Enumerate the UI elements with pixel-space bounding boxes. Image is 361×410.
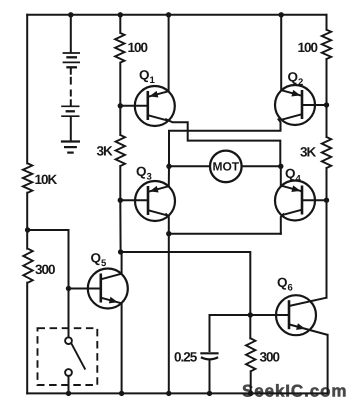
transistor Q4 (PNP, lower-right of bridge) <box>275 181 315 221</box>
wire: Q1 emitter to top bus <box>168 15 170 92</box>
node: Q1 emitter junction on top bus <box>166 12 171 17</box>
svg-text:3K: 3K <box>97 144 114 159</box>
wire: left 3K to Q3 base node <box>119 166 121 200</box>
wire: Q5 base node down to switch <box>68 289 70 338</box>
resistor 10K (left rail) <box>23 163 58 192</box>
wire: top supply bus <box>27 14 326 16</box>
wire: Q2 emitter to top bus <box>280 15 282 91</box>
node: left rail to switch/Q5 branch <box>25 227 30 232</box>
wire: Q3 collector down <box>166 214 169 234</box>
wire: Q2 base node to right 3K <box>326 105 328 137</box>
node: ground bus junction (300 ohm) <box>248 391 253 396</box>
wire: motor right terminal to Q4 emitter <box>280 166 282 186</box>
wire: Q5 collector node to Q6 base node <box>121 252 251 315</box>
node: bridge lower-left junction <box>166 231 171 236</box>
wire: to capacitor top <box>210 315 251 351</box>
wire: Q4 base lead <box>302 199 327 201</box>
wire: left 100 ohm to Q1 base node <box>119 63 121 106</box>
node: Q2 emitter junction on top bus <box>279 12 284 17</box>
svg-text:300: 300 <box>260 350 280 365</box>
wire: bridge lower-left junction to ground bus <box>168 234 170 394</box>
resistor 3K (right) <box>300 137 331 168</box>
node: battery top junction <box>68 12 73 17</box>
wire: right 3K to Q4 base node <box>326 168 328 200</box>
transistor Q5 (NPN, left driver) <box>88 269 128 309</box>
wire: left rail upper <box>26 15 28 164</box>
wire: motor right lead <box>242 165 281 167</box>
svg-text:SeekIC.com: SeekIC.com <box>242 382 347 401</box>
node: Q3 base junction <box>118 198 123 203</box>
wire: motor left lead <box>169 165 210 167</box>
wire: left rail middle <box>26 193 28 249</box>
svg-text:3K: 3K <box>300 145 317 160</box>
resistor 300 (left rail) <box>23 249 55 283</box>
node: ground bus junction (Q5 emitter) <box>119 391 124 396</box>
node: Q4 base junction <box>324 198 329 203</box>
battery B1 (multi-cell with dashed middle) <box>61 53 80 141</box>
svg-text:0.25: 0.25 <box>174 349 198 364</box>
wire: Q5 emitter to ground bus <box>121 303 123 393</box>
transistor Q1 (PNP, upper-left of bridge) <box>135 86 175 126</box>
svg-text:10K: 10K <box>35 172 58 187</box>
transistor Q3 (PNP, lower-left of bridge) <box>135 181 175 221</box>
wire: bridge bottom tie Q3-Q4 collectors <box>169 233 281 235</box>
ground (battery negative) <box>61 142 80 153</box>
wire: Q5 collector up to junction <box>121 252 123 274</box>
node: ground bus junction (switch) <box>66 391 71 396</box>
svg-text:100: 100 <box>128 40 148 55</box>
node: Q5 collector junction <box>118 249 123 254</box>
wire: right 300 ohm to ground bus <box>250 371 252 393</box>
svg-text:Q5: Q5 <box>91 251 108 270</box>
svg-text:Q3: Q3 <box>136 164 152 183</box>
node: Q5 base junction <box>66 286 71 291</box>
svg-text:Q1: Q1 <box>139 68 156 87</box>
node: motor right terminal <box>278 164 283 169</box>
capacitor 0.25 <box>174 349 219 393</box>
wire: Q3 base node down to Q5 collector node <box>119 200 121 252</box>
wire: motor left terminal to Q3 emitter <box>168 166 170 186</box>
node: Q2 base junction <box>324 102 329 107</box>
wire: Q1 base lead <box>120 105 148 107</box>
node: ground bus junction (bridge) <box>166 391 171 396</box>
resistor 3K (left) <box>97 135 126 166</box>
node: left 100-ohm top junction <box>118 12 123 17</box>
resistor 100 (left, collector load Q1) <box>115 33 147 63</box>
transistor Q2 (PNP, upper-right of bridge) <box>275 85 315 125</box>
svg-text:MOT: MOT <box>212 160 239 174</box>
wire: right rail down to Q6 collector <box>326 200 328 298</box>
node: Q6 base junction <box>248 312 253 317</box>
wire: Q5 base lead <box>69 288 101 290</box>
wire: Q6 base node to right 300 ohm <box>249 315 251 338</box>
wire: switch to ground bus <box>68 376 70 394</box>
wire: battery top lead <box>70 15 72 52</box>
svg-text:300: 300 <box>35 262 55 277</box>
wire: right rail top <box>326 15 328 30</box>
wire: Q1 collector to motor right terminal (crossover) <box>166 119 280 166</box>
wire: Q6 emitter to ground bus <box>327 335 329 394</box>
wire: Q6 base lead <box>250 314 288 316</box>
wire: Q4 collector down <box>281 214 284 234</box>
node: motor left terminal <box>166 164 171 169</box>
motor MOT <box>210 151 242 183</box>
node: ground bus junction (capacitor) <box>207 391 212 396</box>
resistor 300 (right, Q6 base) <box>246 338 280 371</box>
transistor Q6 (NPN, right driver) <box>276 295 328 335</box>
wire: Q1 base node to left 3K <box>119 106 121 135</box>
wire: Q2 base lead <box>302 104 327 106</box>
svg-text:100: 100 <box>298 40 318 55</box>
wire: right 100 ohm to Q2 base node <box>326 59 328 105</box>
wire: bottom ground bus <box>27 392 327 394</box>
node: Q1 base junction <box>118 103 123 108</box>
wire: Q2 collector to motor left terminal (crossover) <box>169 119 281 166</box>
switch S1 (in dashed enclosure) <box>38 328 98 385</box>
svg-text:Q6: Q6 <box>277 275 293 294</box>
wire: Q3 base lead <box>120 199 148 201</box>
wire: to left 100 ohm <box>119 15 121 33</box>
wire: left rail lower <box>26 283 28 394</box>
wire: branch to Q5 base node <box>28 230 69 289</box>
resistor 100 (right, collector load Q2) <box>298 30 332 59</box>
